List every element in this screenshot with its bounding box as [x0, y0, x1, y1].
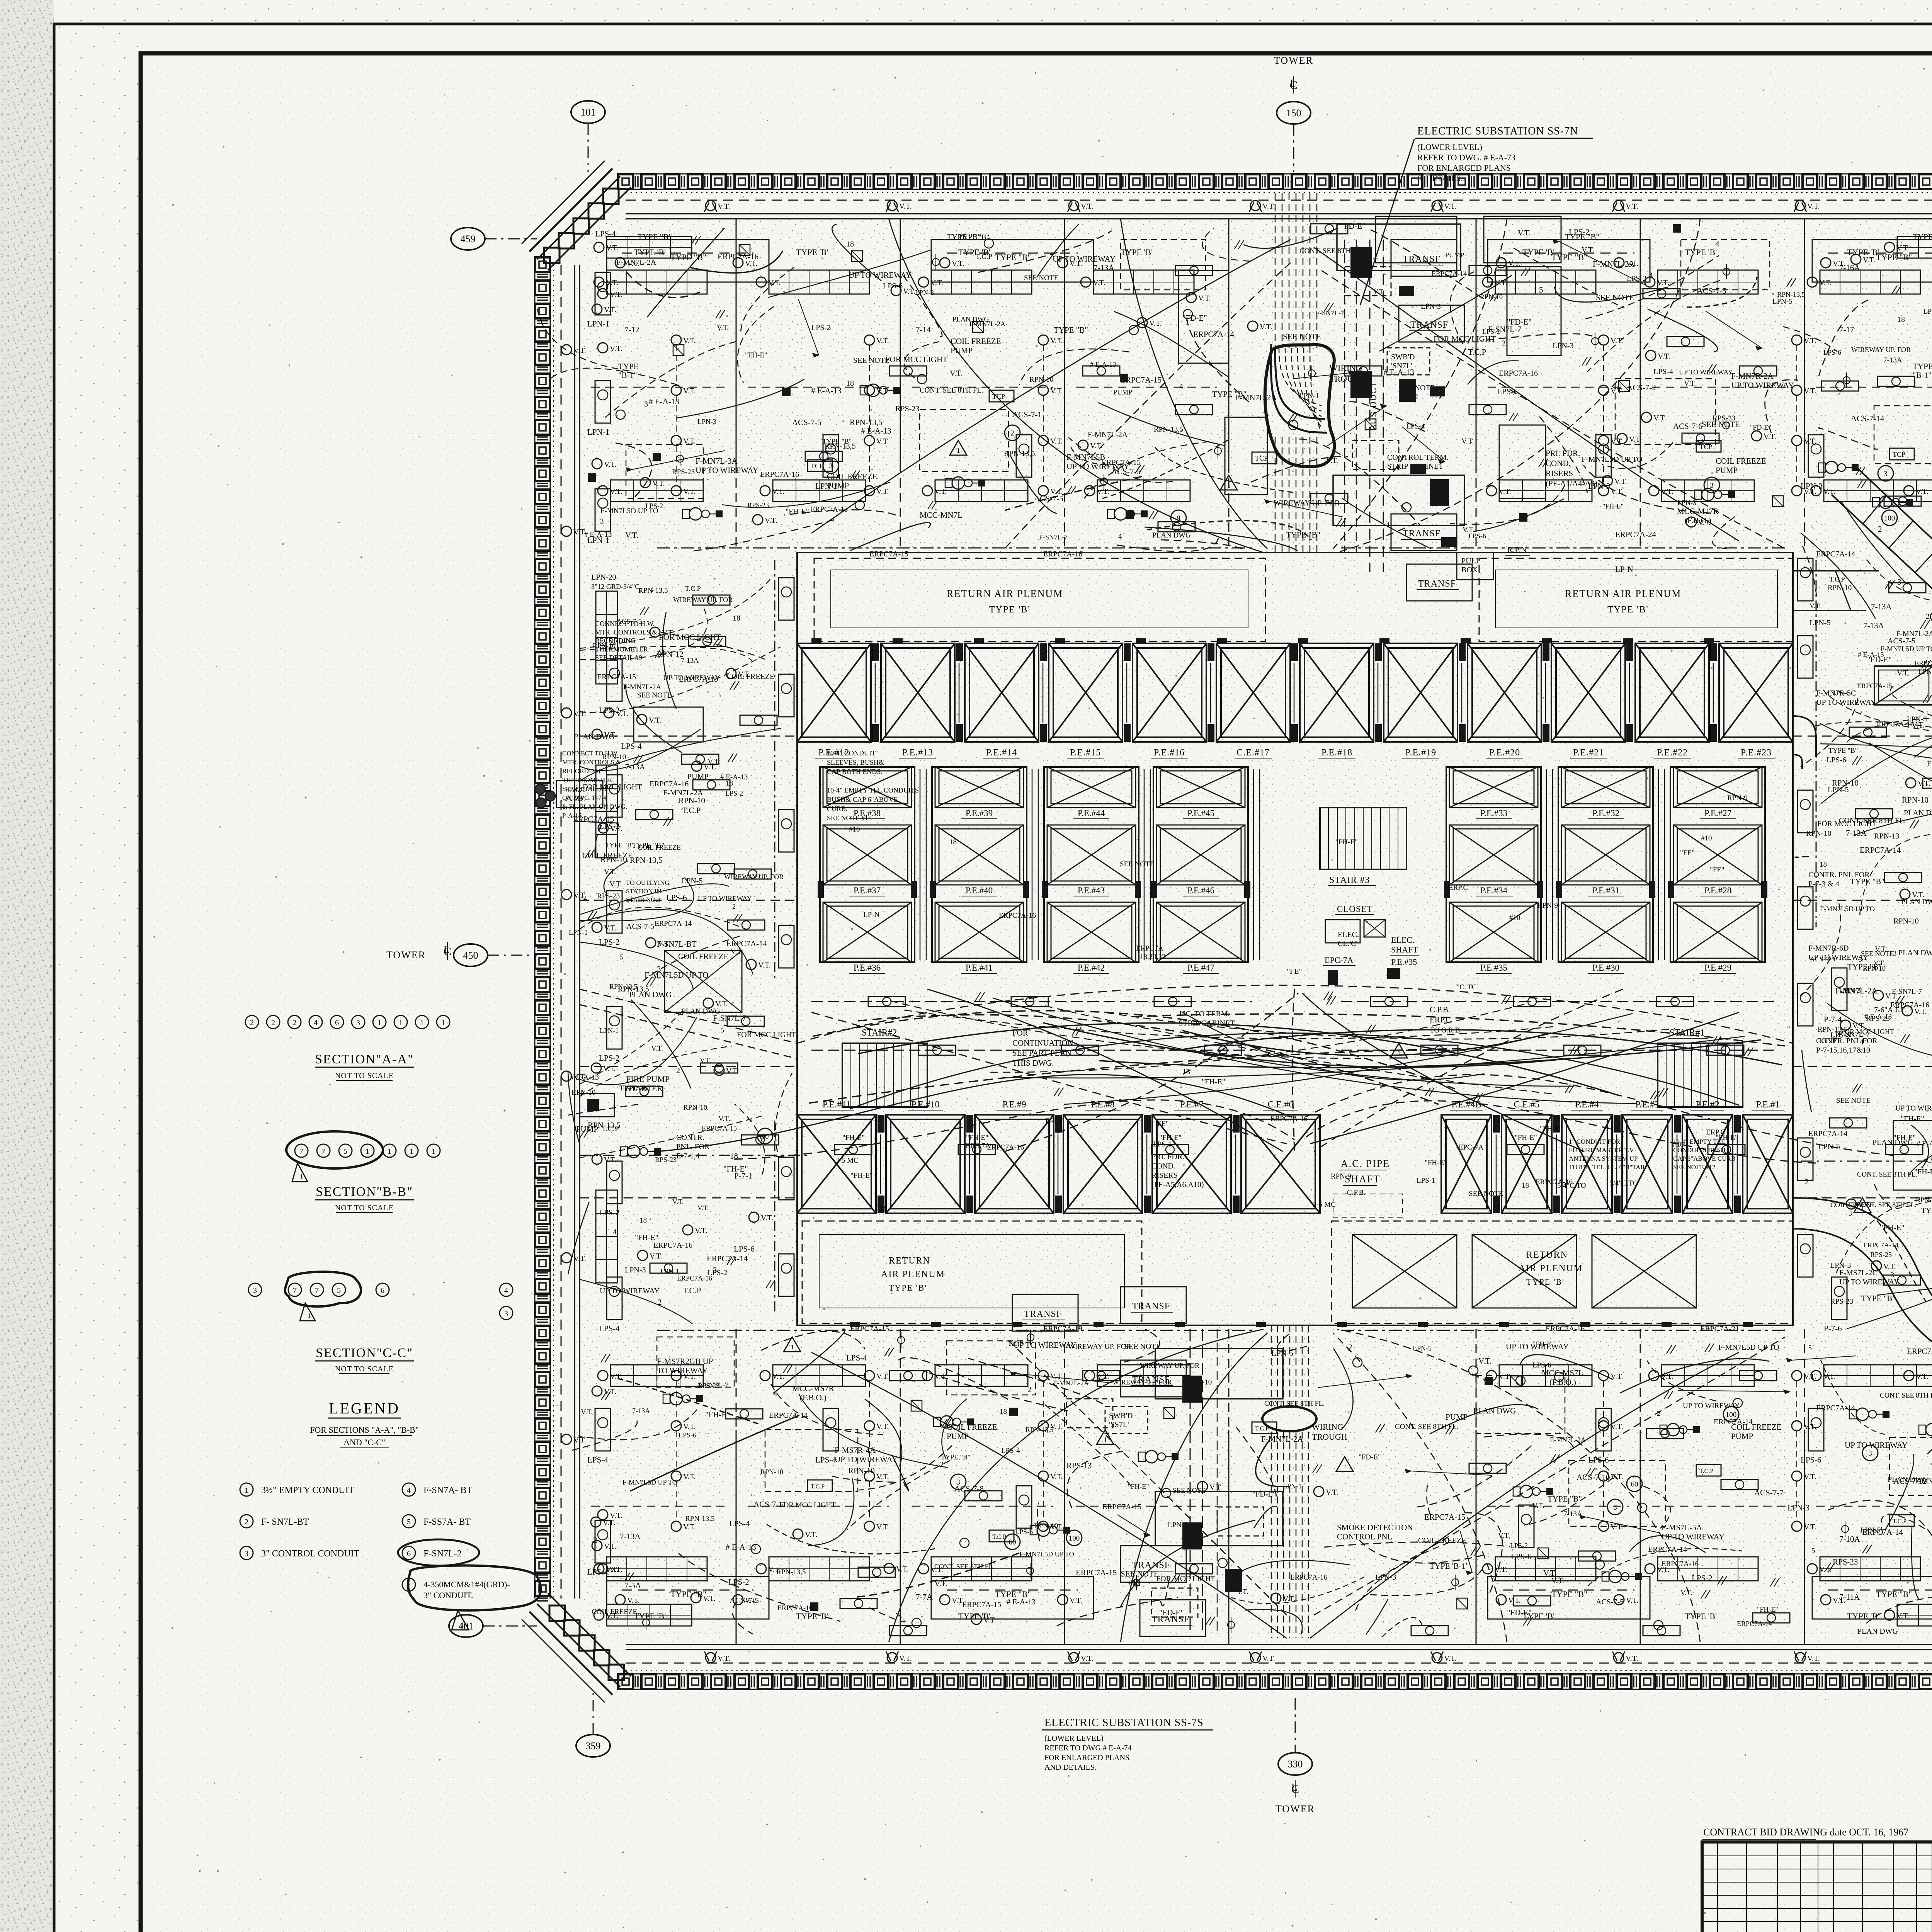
wiring trough heavy cloud outline — [1265, 345, 1335, 467]
extra room circuits bottom ring — [1333, 1349, 1353, 1430]
svg-text:2: 2 — [250, 1019, 254, 1027]
right inner edge equipment — [1798, 558, 1813, 601]
svg-text:5: 5 — [407, 1518, 411, 1526]
svg-text:ELECTRIC SUBSTATION SS-7S: ELECTRIC SUBSTATION SS-7S — [1044, 1717, 1204, 1729]
fine dotted line under column band — [626, 192, 1932, 193]
svg-text:AND DETAILS.: AND DETAILS. — [1044, 1763, 1097, 1772]
svg-text:6: 6 — [407, 1549, 411, 1558]
extra fixtures scattered — [727, 1016, 764, 1026]
revisions grid — [1702, 1855, 1932, 1856]
svg-text:3: 3 — [245, 1549, 248, 1558]
column line bubble 359 below bottom-left — [576, 1735, 610, 1757]
svg-text:6: 6 — [381, 1286, 384, 1295]
corner outer decorative diagonals — [529, 168, 612, 252]
substation zone top center extra — [1345, 267, 1391, 296]
svg-text:4: 4 — [504, 1286, 508, 1295]
right ring elbow bottom — [1793, 716, 1816, 757]
dashed equipment outlines — [920, 410, 1009, 471]
top ring dense middle boxes — [1376, 216, 1457, 263]
lower return air plenum right — [1332, 1221, 1793, 1323]
top ring room partitions — [736, 219, 737, 464]
right ring content — [1793, 736, 1932, 737]
svg-text:450: 450 — [463, 950, 478, 961]
svg-text:LEGEND: LEGEND — [329, 1400, 400, 1417]
legend items — [240, 1483, 253, 1496]
svg-text:1: 1 — [245, 1486, 248, 1495]
more top ring fixture arrays row 2 — [611, 480, 703, 502]
lower return air plenum left — [802, 1221, 1142, 1323]
hash tick marks on conduit lines — [1664, 1391, 1669, 1399]
svg-text:7: 7 — [315, 1286, 319, 1295]
svg-text:NOT TO SCALE: NOT TO SCALE — [335, 1365, 394, 1373]
core equipment row 1 (P.E.12-23) crosshatched cells — [797, 643, 871, 742]
extra vt symbols scattered — [726, 668, 751, 679]
scattered device symbols — [1129, 325, 1138, 335]
stair 1 — [1658, 1043, 1743, 1107]
hwc pump cluster left — [535, 784, 545, 794]
svg-text:FOR ENLARGED PLANS: FOR ENLARGED PLANS — [1417, 163, 1511, 173]
svg-text:1: 1 — [410, 1147, 413, 1156]
svg-text:FOR ENLARGED PLANS: FOR ENLARGED PLANS — [1044, 1753, 1129, 1762]
more corridor arcs — [1182, 1012, 1484, 1080]
svg-text:101: 101 — [581, 107, 596, 118]
svg-text:7: 7 — [321, 1147, 325, 1156]
left ring X box — [665, 951, 742, 1012]
svg-text:2: 2 — [245, 1518, 248, 1526]
column line bubble 459 left-top — [451, 228, 485, 250]
more corridor arcs 2 — [1099, 1040, 1761, 1068]
svg-text:L: L — [1291, 1782, 1298, 1793]
svg-text:1: 1 — [461, 1621, 464, 1628]
long leader lines with arrows — [1402, 427, 1445, 462]
column line bubble 401 left-bottom — [449, 1615, 483, 1637]
column line bubble 101 top-left — [571, 101, 605, 123]
svg-text:SECTION"B-B": SECTION"B-B" — [316, 1185, 413, 1199]
transformer boxes top center — [1391, 240, 1457, 276]
corridor wireway fixtures — [835, 1145, 872, 1155]
svg-text:5: 5 — [337, 1286, 341, 1295]
scan margin speckle — [0, 0, 54, 1932]
substation zone bottom center extra — [1066, 1399, 1113, 1428]
svg-text:F-SN7A- BT: F-SN7A- BT — [423, 1485, 472, 1495]
top ring small fd-e fixtures — [1175, 265, 1213, 276]
svg-text:NOT TO SCALE: NOT TO SCALE — [335, 1204, 394, 1212]
upper return air plenum left — [814, 558, 1265, 641]
substation extra black gear — [1350, 247, 1372, 278]
chamfered corners of plan — [537, 176, 620, 259]
svg-text:REFER TO DWG.# E-A-74: REFER TO DWG.# E-A-74 — [1044, 1744, 1132, 1752]
top ring fan conduits — [811, 240, 1291, 533]
svg-text:4-350MCM&1#4(GRD)-: 4-350MCM&1#4(GRD)- — [423, 1580, 510, 1589]
svg-text:TOWER: TOWER — [1274, 55, 1313, 66]
bottom ring fan conduits — [811, 1352, 1287, 1638]
section B-B conduit circles with lasso — [295, 1144, 308, 1157]
stair 3 center of core — [1320, 808, 1406, 869]
left inner edge equipment — [779, 578, 794, 620]
top ring tcp boxes — [808, 460, 832, 471]
type-b dashed brackets along walls — [607, 240, 769, 282]
core outline — [797, 553, 1793, 1325]
stair 2 — [842, 1043, 927, 1107]
right ring lower duct curve — [1793, 1198, 1932, 1345]
svg-text:1: 1 — [300, 1173, 303, 1180]
svg-text:F- SN7L-BT: F- SN7L-BT — [261, 1517, 309, 1527]
svg-text:359: 359 — [586, 1740, 601, 1752]
core top edge panels — [811, 638, 821, 643]
svg-text:SECTION"A-A": SECTION"A-A" — [315, 1052, 414, 1066]
more conduit arcs bottom ring — [1121, 1520, 1255, 1607]
svg-text:(LOWER LEVEL): (LOWER LEVEL) — [1044, 1734, 1104, 1743]
right ring horizontal duct — [1793, 570, 1879, 571]
svg-text:CONTRACT BID DRAWING dat: CONTRACT BID DRAWING date OCT. 16, 1967 — [1703, 1827, 1908, 1838]
svg-text:1: 1 — [399, 1019, 403, 1027]
wiring trough bundle bottom center — [1271, 1325, 1272, 1406]
svg-text:7: 7 — [293, 1286, 297, 1295]
ring horizontal partial walls — [591, 387, 724, 388]
svg-text:2: 2 — [293, 1019, 296, 1027]
extra room circuits top ring — [1037, 224, 1079, 277]
svg-text:SECTION"C-C": SECTION"C-C" — [316, 1346, 413, 1360]
svg-text:1: 1 — [432, 1147, 435, 1156]
plan area texture noise — [580, 219, 1932, 553]
svg-text:3: 3 — [504, 1310, 508, 1318]
side ring vertical fixture ladders — [596, 591, 617, 684]
svg-text:7: 7 — [299, 1147, 303, 1156]
swbd cabinets top center — [1387, 348, 1430, 375]
wireway dash-dot along core bottom — [657, 1330, 1252, 1331]
svg-text:L: L — [444, 944, 450, 955]
bottom ring fixtures — [889, 1371, 927, 1381]
svg-text:6: 6 — [335, 1019, 339, 1027]
side ring extra density — [592, 304, 617, 314]
perimeter column band - bottom — [626, 1673, 1932, 1675]
section A-A conduit circles — [245, 1015, 259, 1029]
svg-text:F-SS7A- BT: F-SS7A- BT — [423, 1517, 471, 1527]
interior room outer wall — [626, 218, 1932, 219]
wireway dash-dot along core top — [657, 548, 1252, 549]
core mid towers with crosshatched cells — [820, 767, 915, 962]
ring corner clusters — [607, 236, 692, 258]
more conduit arcs top ring — [850, 522, 930, 551]
lasso around legend item 6 — [398, 1539, 479, 1566]
svg-text:459: 459 — [461, 233, 476, 245]
upper return air plenum right — [1479, 558, 1793, 641]
perimeter areaway lighting dashed loop with V.T. symbols — [626, 200, 1932, 201]
svg-text:4: 4 — [407, 1486, 411, 1495]
title block outline — [1702, 1842, 1932, 1932]
section C-C conduit circles with lasso — [248, 1283, 262, 1296]
svg-text:TOWER: TOWER — [1276, 1803, 1315, 1815]
svg-text:3½" EMPTY CONDUIT: 3½" EMPTY CONDUIT — [261, 1485, 354, 1495]
delta revision markers — [950, 440, 967, 455]
svg-text:3" CONDUIT.: 3" CONDUIT. — [423, 1590, 473, 1600]
svg-text:L: L — [1290, 78, 1296, 89]
svg-text:3: 3 — [356, 1019, 360, 1027]
wiring trough bundle top center — [1275, 193, 1276, 348]
pump motor clusters — [682, 508, 723, 520]
perimeter column band - top — [626, 173, 1932, 175]
more bottom ring fixture arrays row 2 — [611, 1365, 703, 1386]
svg-text:ELECTRIC SUBSTATION SS-7N: ELECTRIC SUBSTATION SS-7N — [1417, 125, 1578, 137]
extra arcs pass3 — [1202, 228, 1251, 261]
svg-text:5: 5 — [344, 1147, 347, 1156]
bus duct bottom center — [1190, 1329, 1191, 1634]
svg-text:AND "C-C": AND "C-C" — [344, 1437, 385, 1447]
svg-text:REFER TO DWG. # E-A-73: REFER TO DWG. # E-A-73 — [1417, 153, 1515, 162]
svg-text:TOWER: TOWER — [386, 949, 426, 961]
bottom ring room partitions — [736, 1430, 737, 1645]
corridor wireway rows — [811, 1001, 1252, 1002]
left ring content — [580, 736, 797, 737]
svg-text:1: 1 — [388, 1147, 391, 1156]
top ring fixture arrays and equipment — [607, 270, 707, 294]
svg-text:1: 1 — [420, 1019, 424, 1027]
right ring supply duct diagonal — [1855, 466, 1932, 566]
corridor conduit runs — [657, 1075, 1291, 1151]
svg-text:4: 4 — [314, 1019, 318, 1027]
bus duct top center — [1369, 240, 1371, 572]
fire pump area left — [580, 989, 797, 1043]
svg-text:& DETAILS.: & DETAILS. — [1417, 173, 1463, 183]
circled device numbers — [823, 458, 838, 473]
bottom ring fixture arrays — [607, 1557, 707, 1581]
svg-text:2: 2 — [271, 1019, 275, 1027]
svg-text:NOT TO SCALE: NOT TO SCALE — [335, 1071, 394, 1080]
svg-text:3: 3 — [253, 1286, 257, 1295]
svg-text:330: 330 — [1288, 1759, 1303, 1770]
svg-text:1: 1 — [441, 1019, 445, 1027]
extra room circuits side rings — [604, 861, 628, 893]
right ring fd-e big box — [1874, 666, 1932, 705]
svg-text:150: 150 — [1286, 107, 1301, 119]
svg-text:3" CONTROL CONDUIT: 3" CONTROL CONDUIT — [261, 1549, 360, 1559]
right ring boxes — [1893, 1121, 1932, 1190]
transformer boxes bottom center — [1121, 1287, 1186, 1323]
perimeter column band - left — [534, 265, 536, 1599]
ring vertical wireways — [774, 560, 776, 981]
svg-text:(LOWER LEVEL): (LOWER LEVEL) — [1417, 142, 1482, 152]
svg-text:F-SN7L-2: F-SN7L-2 — [423, 1549, 462, 1559]
svg-text:1: 1 — [366, 1147, 369, 1156]
svg-text:1: 1 — [308, 1312, 311, 1319]
tower centerline marker bottom — [1278, 1753, 1312, 1775]
svg-text:FOR SECTIONS "A-A", "B-B": FOR SECTIONS "A-A", "B-B" — [310, 1425, 419, 1435]
svg-text:1: 1 — [378, 1019, 381, 1027]
